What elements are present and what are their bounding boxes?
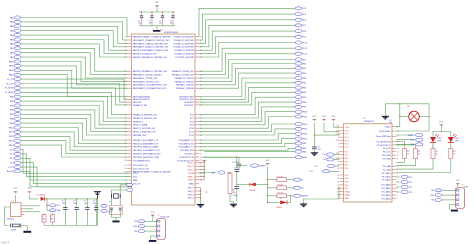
svg-text:33: 33 [125, 121, 127, 123]
wire term a to U3 [335, 165, 340, 167]
pin stub left 4 [127, 46, 131, 48]
wire U1 to PC12 [199, 54, 295, 75]
svg-text:PB7/I2C1_SDA/TIM4_CH2: PB7/I2C1_SDA/TIM4_CH2 [133, 131, 156, 134]
U1 VBAT pin [189, 183, 200, 186]
wire PB11 to U1 [21, 132, 127, 147]
terminal SDA [49, 209, 55, 212]
svg-text:PC15-OSC32_OUT: PC15-OSC32_OUT [133, 168, 150, 170]
wire PC1 bottom run [21, 154, 131, 177]
svg-text:PB12: PB12 [9, 136, 15, 138]
wire VCC to U3 row1 [334, 126, 340, 128]
svg-text:P3.5 (T1): P3.5 (T1) [383, 152, 391, 154]
wire FL_CLK to U1 [21, 84, 127, 103]
terminal PB14 [14, 144, 21, 147]
terminal PC4 [295, 7, 302, 10]
svg-text:VCC: VCC [322, 116, 327, 118]
svg-text:VREF-: VREF- [188, 180, 194, 182]
wire PB5 to U1 [21, 106, 127, 125]
svg-text:57: 57 [200, 125, 202, 127]
svg-text:42: 42 [125, 153, 127, 155]
svg-text:104: 104 [149, 22, 152, 24]
wire PA0 to U1 [21, 18, 127, 37]
svg-text:43: 43 [200, 57, 202, 59]
svg-text:PA9/USART1_TX/TIM1_CH2: PA9/USART1_TX/TIM1_CH2 [133, 77, 158, 80]
U1 VDD pins [187, 163, 204, 182]
connector J2 pin [457, 204, 459, 206]
wire U1 to PB9 [199, 107, 295, 122]
resistor R7 body [277, 194, 287, 198]
terminal PC10 [295, 41, 302, 44]
ground antenna symbol [94, 192, 101, 199]
wire U1 to PB3 [199, 78, 295, 97]
svg-text:P3.1: P3.1 [345, 165, 349, 167]
svg-text:PA0-WKUP/USART2_CTS/ADC12_IN0/: PA0-WKUP/USART2_CTS/ADC12_IN0/TIM2 [133, 36, 171, 39]
svg-text:1: 1 [397, 198, 398, 200]
svg-text:DS1302: DS1302 [7, 218, 14, 220]
svg-text:1k: 1k [453, 154, 455, 156]
svg-text:4: 4 [397, 188, 398, 190]
wire U1 to PB1 [199, 68, 295, 85]
svg-text:PB10/ADC_TIM/CH5: PB10/ADC_TIM/CH5 [176, 84, 194, 87]
svg-text:PB1/ADC12_IN9/TIM3_CH4: PB1/ADC12_IN9/TIM3_CH4 [133, 117, 157, 120]
wire PC13 bottom run [21, 167, 131, 187]
U2 right pins [21, 205, 25, 207]
power VCC U3 333.5 [331, 116, 336, 121]
wire PB10 to U1 [21, 128, 127, 144]
power VCC cap bank [155, 2, 160, 7]
wire PA2 to U1 [21, 26, 127, 43]
svg-text:FL_MISO: FL_MISO [5, 92, 14, 94]
terminal T_B [101, 209, 107, 212]
terminal PA4 [14, 34, 21, 37]
terminal J2 5V0 [435, 189, 441, 192]
svg-text:1k: 1k [407, 154, 409, 156]
svg-text:RX2: RX2 [410, 140, 414, 142]
svg-text:P3.4 (T0): P3.4 (T0) [383, 148, 391, 150]
svg-text:9: 9 [397, 169, 398, 171]
pin stub left 8 [127, 70, 131, 72]
U1 right pins [172, 36, 202, 163]
terminal NRST oval [218, 171, 225, 174]
capacitor C10 plates [94, 208, 98, 210]
svg-text:48: 48 [200, 85, 202, 87]
svg-text:P3.3: P3.3 [345, 175, 349, 177]
svg-text:PB7/ADC12_IN/TIM_CH2: PB7/ADC12_IN/TIM_CH2 [172, 74, 194, 77]
wire X2 to ground [21, 226, 27, 231]
terminal PC0 [14, 148, 21, 151]
pin stub right 2 [195, 39, 199, 41]
wire LED1 to R11 [432, 143, 434, 149]
svg-text:PB6/ADC12_IN/TIM_CH1: PB6/ADC12_IN/TIM_CH1 [172, 70, 194, 73]
svg-text:AT89C52: AT89C52 [365, 120, 375, 123]
svg-text:5V0: 5V0 [134, 221, 137, 223]
wire VDD bus [203, 161, 205, 180]
svg-text:PC1/ADC12_IN11/TIM5: PC1/ADC12_IN11/TIM5 [174, 39, 194, 42]
svg-text:PB9/ADC12_TIM/CH4: PB9/ADC12_TIM/CH4 [175, 80, 194, 83]
svg-text:P2.1 (A9): P2.1 (A9) [383, 169, 391, 172]
svg-text:VSS_1: VSS_1 [188, 188, 194, 190]
svg-text:14: 14 [397, 148, 399, 150]
junction buzzer left [399, 116, 400, 117]
pin stub right 18 [195, 114, 199, 116]
terminal PB0 [14, 95, 21, 98]
svg-text:104: 104 [93, 203, 96, 205]
pin stub right 26 [195, 142, 199, 144]
wire R9 bottom [396, 159, 405, 163]
svg-text:LS?: LS? [407, 106, 410, 108]
power VCC U2 [13, 188, 18, 193]
svg-text:P3.5: P3.5 [345, 182, 349, 184]
svg-text:12: 12 [397, 155, 399, 157]
svg-text:1N4148: 1N4148 [249, 190, 255, 192]
wire cap bank bottom rail [139, 25, 175, 27]
svg-text:37: 37 [125, 135, 127, 137]
terminal FL_CLK [14, 82, 21, 85]
junction LED split [441, 131, 442, 132]
svg-text:PB12/SPI2_NSS/I2C2_SMBA: PB12/SPI2_NSS/I2C2_SMBA [133, 146, 159, 149]
wire U3 left pin [338, 191, 341, 193]
svg-text:PA12/USART1_RTS/CANTX/TIM1_ETR: PA12/USART1_RTS/CANTX/TIM1_ETR [133, 87, 167, 90]
resistor R1 10k [43, 213, 45, 215]
svg-text:104: 104 [159, 22, 162, 24]
svg-text:PC13: PC13 [9, 167, 15, 169]
pin stub right 5 [195, 49, 199, 51]
terminal PA2 [14, 25, 21, 28]
power VCC U3 324.0 [322, 116, 327, 121]
wire PA10 to U1 [21, 62, 127, 82]
svg-text:8: 8 [126, 176, 127, 178]
svg-text:PC12: PC12 [302, 54, 308, 56]
pin stub right 30 [195, 156, 199, 158]
junction VSS [200, 197, 201, 198]
svg-text:P1.1: P1.1 [345, 134, 349, 136]
wire U1 to PB7 [199, 97, 295, 114]
terminal PB6 [295, 91, 302, 94]
svg-text:VCC: VCC [155, 2, 160, 4]
junction pair1 [46, 205, 47, 206]
terminal PB8 [14, 117, 21, 120]
wire PC0 bottom run [21, 150, 131, 174]
pin stub left 3 [127, 42, 131, 44]
terminal PC3 [14, 161, 21, 164]
terminal [127, 183, 133, 186]
svg-text:11: 11 [397, 158, 399, 160]
svg-text:XTAL1: XTAL1 [385, 126, 391, 129]
terminal PA11 [14, 64, 21, 67]
svg-text:PB6/I2C1_SCL/TIM4_CH1: PB6/I2C1_SCL/TIM4_CH1 [133, 128, 156, 130]
power VCC rail [27, 188, 32, 193]
svg-text:10k: 10k [233, 192, 236, 194]
wire U2 to crystal X2 [5, 207, 11, 226]
svg-text:PC10: PC10 [189, 128, 194, 130]
ground buzzer [382, 116, 389, 119]
terminal U3 a [328, 164, 335, 167]
svg-text:PC3/ADC12_IN13/TIM5: PC3/ADC12_IN13/TIM5 [173, 46, 193, 49]
junction buzzer right [428, 116, 429, 117]
svg-text:RESET: RESET [408, 135, 415, 137]
junction cap top [151, 11, 152, 12]
junction mid bus3 [267, 184, 268, 185]
svg-text:P1.0: P1.0 [345, 130, 349, 132]
svg-text:36: 36 [125, 131, 127, 133]
svg-text:PC5/ADC12_IN15/TIM: PC5/ADC12_IN15/TIM [174, 53, 194, 56]
pin stub right 3 [195, 42, 199, 44]
connector J2 pin [457, 189, 459, 191]
terminal PC12 [295, 52, 302, 55]
svg-text:P3.6: P3.6 [345, 185, 349, 187]
terminal PA7 [14, 47, 21, 50]
buzzer LS1 [409, 111, 420, 122]
wire U3 left bus to gnd [304, 199, 339, 204]
svg-text:PA2/USART2_TX/ADC12_IN2/TIM2_C: PA2/USART2_TX/ADC12_IN2/TIM2_CH3 [133, 42, 168, 45]
svg-text:41: 41 [200, 50, 202, 52]
svg-text:P1.3: P1.3 [345, 140, 349, 142]
svg-text:PC2/ADC12_IN12/TIM5: PC2/ADC12_IN12/TIM5 [173, 42, 193, 45]
wire U2 pin to rail [25, 205, 41, 207]
pin stub right 13 [195, 87, 199, 89]
svg-text:FL_CLK: FL_CLK [6, 83, 14, 85]
terminal PB5 [295, 86, 302, 89]
terminal PB11 [14, 130, 21, 133]
svg-text:20: 20 [125, 57, 127, 59]
svg-text:4k7: 4k7 [51, 219, 54, 221]
capacitor C10 104 [95, 199, 97, 208]
svg-text:PC14: PC14 [133, 173, 138, 175]
svg-text:104: 104 [84, 203, 87, 205]
pin stub right 23 [195, 131, 199, 133]
wire LED2 to R12 [450, 143, 452, 149]
wire buzzer left [400, 116, 409, 118]
capacitor C5 22pF [110, 205, 123, 215]
terminal PA1 [14, 20, 21, 23]
svg-text:61: 61 [200, 140, 202, 142]
wire to R7 [268, 195, 277, 197]
svg-text:P10: P10 [323, 154, 326, 156]
wire xtal2 row [396, 130, 429, 132]
svg-text:PC11: PC11 [189, 132, 194, 134]
svg-text:PC4/ADC12_IN14/TIM: PC4/ADC12_IN14/TIM [174, 49, 194, 52]
wire U1 to PB15 [199, 139, 295, 144]
wire U3 left bus [338, 187, 340, 200]
wire long rail B [204, 156, 295, 158]
terminal FL_MOSI [14, 86, 21, 89]
svg-text:P3.7 (RD): P3.7 (RD) [382, 158, 391, 160]
svg-text:PC9: PC9 [190, 125, 194, 127]
pin stub left 14 [127, 96, 131, 98]
wire U3 to P21 [396, 181, 400, 183]
wire buzzer gnd drop [384, 104, 386, 116]
LED D3 [430, 137, 436, 142]
capacitor C7 104 [64, 199, 66, 208]
svg-text:29: 29 [125, 102, 127, 104]
pin stub right 31 [195, 159, 199, 161]
svg-text:28: 28 [125, 99, 127, 101]
wire crystal to C left [111, 198, 113, 207]
wire buzzer right vertical [428, 104, 430, 131]
svg-text:TX2: TX2 [411, 144, 414, 146]
terminal PA9 [295, 147, 302, 150]
terminal PD2 [295, 58, 302, 61]
wire to terminal pair1b [47, 209, 49, 211]
svg-text:1k: 1k [418, 154, 420, 156]
junction cap top [172, 11, 173, 12]
svg-text:51: 51 [200, 99, 202, 101]
svg-text:58: 58 [200, 128, 202, 130]
svg-text:65: 65 [200, 153, 202, 155]
svg-text:6: 6 [338, 144, 339, 146]
junction VSS [200, 194, 201, 195]
svg-text:15: 15 [125, 40, 127, 42]
crystal X1 [112, 194, 121, 199]
svg-text:1N4007: 1N4007 [276, 207, 282, 209]
svg-text:K1: K1 [301, 179, 303, 181]
svg-text:P1.5: P1.5 [345, 147, 349, 149]
terminal TX2 [415, 143, 423, 146]
svg-text:P3.6 (WR): P3.6 (WR) [382, 155, 391, 157]
terminal RX2 [415, 138, 423, 141]
wire C12 to C13 [236, 172, 238, 186]
wire VCC drop [313, 123, 315, 147]
svg-text:52: 52 [200, 102, 202, 104]
power VCC J1 [151, 212, 156, 217]
pin stub left 30 [127, 156, 131, 158]
wire VCC to diode [30, 195, 39, 199]
svg-text:FL_MOSI: FL_MOSI [5, 88, 14, 90]
terminal PA10 [14, 60, 21, 63]
terminal R5 out [293, 178, 300, 181]
pin stub left 16 [127, 101, 131, 103]
wire R10 bottom [396, 159, 416, 166]
terminal PB15 [295, 137, 302, 140]
capacitor [312, 147, 317, 149]
junction U3 left2 [338, 194, 339, 195]
terminal J2 TXD [435, 198, 441, 201]
resistor R3 body [228, 174, 232, 194]
svg-text:TXD: TXD [134, 231, 138, 233]
svg-text:P21: P21 [409, 182, 412, 184]
wire C12 top [236, 157, 238, 168]
wire to U3 row3 [314, 134, 339, 136]
svg-text:PB15/SPI2_MOSI/TIM1_CH3N: PB15/SPI2_MOSI/TIM1_CH3N [133, 157, 160, 159]
svg-text:32: 32 [200, 169, 202, 171]
wire PB8 to U1 [21, 119, 127, 135]
wire U1 to PB12 [199, 124, 295, 132]
capacitor [237, 164, 241, 166]
U1 lower left pins [126, 173, 141, 185]
svg-text:PB13/SPI2_SCK/USART3_CTS: PB13/SPI2_SCK/USART3_CTS [133, 149, 161, 152]
junction VDD [204, 169, 205, 170]
svg-text:9: 9 [338, 155, 339, 157]
svg-text:34: 34 [125, 125, 127, 127]
wire buzzer right stub [419, 116, 429, 118]
svg-text:41: 41 [125, 150, 127, 152]
svg-text:35: 35 [125, 128, 127, 130]
pin stub right 11 [195, 80, 199, 82]
junction cap rail [96, 198, 97, 199]
terminal T_A [101, 204, 107, 207]
svg-text:PB14: PB14 [9, 145, 15, 147]
svg-text:8: 8 [338, 151, 339, 153]
wire U1 to PB13 [199, 129, 295, 135]
capacitor C9 104 [86, 199, 88, 208]
svg-text:PB0/ADC12_IN8: PB0/ADC12_IN8 [133, 104, 147, 107]
svg-text:PA13/JTMS-SWDAT: PA13/JTMS-SWDAT [133, 95, 151, 98]
wire U1 to PB8 [199, 102, 295, 118]
svg-text:RXD: RXD [134, 226, 139, 228]
svg-text:D? 1N4148: D? 1N4148 [36, 195, 46, 197]
svg-text:C? 10uF: C? 10uF [232, 162, 240, 164]
svg-text:5V0: 5V0 [431, 190, 434, 192]
power VCC U1 [202, 157, 207, 162]
svg-text:PA4/SPI1_NSS/USART2_CK/ADC12_I: PA4/SPI1_NSS/USART2_CK/ADC12_IN4 [133, 49, 168, 52]
wire U1 to PB5 [199, 88, 295, 103]
terminal PB6 [14, 108, 21, 111]
svg-text:K2: K2 [301, 188, 303, 190]
svg-text:D?: D? [280, 198, 282, 200]
terminal PB7 [295, 96, 302, 99]
terminal PB13 [14, 139, 21, 142]
svg-text:62: 62 [200, 143, 202, 145]
terminal FL_MISO [14, 91, 21, 94]
junction U3 left [338, 188, 339, 189]
svg-text:12: 12 [337, 165, 339, 167]
wire U1 to PB10 [199, 112, 295, 125]
svg-text:5: 5 [397, 185, 398, 187]
pin stub left 18 [127, 114, 131, 116]
connector J1 body [157, 219, 166, 240]
wire gnd drop [96, 199, 98, 226]
wire U1 to PB2 [199, 73, 295, 88]
resistor R9 body [403, 149, 407, 159]
svg-text:BOOT0: BOOT0 [7, 171, 15, 173]
svg-text:PB13/SPI2_SCK: PB13/SPI2_SCK [179, 99, 194, 101]
svg-text:40: 40 [125, 147, 127, 149]
svg-text:P3.0: P3.0 [314, 166, 318, 168]
svg-text:R?: R? [42, 216, 44, 218]
svg-text:24: 24 [125, 81, 127, 83]
junction C11 [237, 171, 238, 172]
svg-text:PB14/SPI2: PB14/SPI2 [184, 102, 193, 104]
pin stub left 9 [127, 74, 131, 76]
svg-text:PA8/USART1_CK/TIM1_CH1/MCO: PA8/USART1_CK/TIM1_CH1/MCO [133, 74, 163, 77]
pin stub left 6 [127, 53, 131, 55]
junction D2 reset [290, 195, 291, 196]
wire T_P10 to U3 [334, 154, 340, 156]
resistor R11 body [431, 149, 435, 159]
svg-text:P3.2: P3.2 [345, 168, 349, 170]
pin stub left 19 [127, 117, 131, 119]
terminal PB7 [14, 113, 21, 116]
ground NRST [230, 204, 237, 207]
wire FL_MOSI to U1 [21, 88, 127, 105]
wire VCC drop [333, 123, 335, 127]
svg-text:P0.4 (AD4): P0.4 (AD4) [381, 197, 391, 200]
svg-text:19: 19 [125, 53, 127, 55]
svg-text:VDDA: VDDA [188, 172, 194, 175]
wire U1 to PB14 [199, 134, 295, 140]
svg-text:R? 10k: R? 10k [278, 185, 284, 187]
pin stub left 24 [127, 134, 131, 136]
terminal PB9 [295, 105, 302, 108]
wire PA15 to U1 [21, 75, 127, 97]
terminal PA15 [14, 73, 21, 76]
svg-text:22p: 22p [108, 212, 111, 214]
junction VSS [200, 190, 201, 191]
power VCC U3 314.4 [312, 116, 317, 121]
svg-text:P3.3 (INT1/P3.7): P3.3 (INT1/P3.7) [377, 145, 392, 147]
svg-text:7: 7 [338, 147, 339, 149]
wire U1 to PC9 [199, 37, 295, 54]
